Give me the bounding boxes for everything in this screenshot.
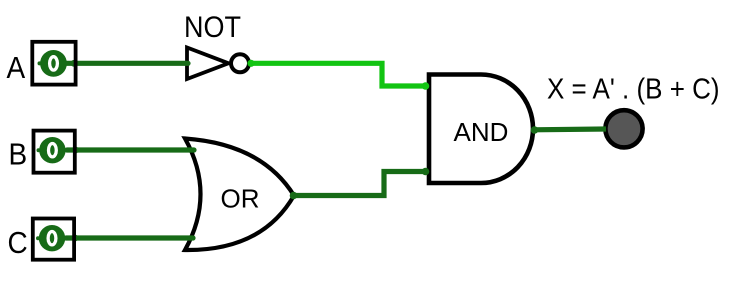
wire AND output to node X <box>532 126 606 132</box>
wire NOT output to AND (bright green, high signal) <box>250 63 426 86</box>
node dot at C box border <box>72 235 79 242</box>
input C value 0 <box>48 232 56 245</box>
node dot at B box border <box>72 147 79 154</box>
input B left nub <box>37 148 41 152</box>
input switch A box <box>32 42 75 85</box>
svg-text:B: B <box>9 137 28 172</box>
wire C: input C to OR <box>66 235 193 240</box>
input A left nub <box>38 61 42 65</box>
input A value 0 <box>50 57 58 70</box>
svg-text:C: C <box>8 226 28 261</box>
svg-text:AND: AND <box>454 117 509 147</box>
output node circle <box>605 110 642 147</box>
input C right nub <box>64 236 68 240</box>
input B value 0 <box>49 144 57 157</box>
input switch C box <box>33 219 74 260</box>
input C state circle <box>39 225 65 251</box>
wire A: input A to NOT <box>66 61 188 66</box>
node dot at AND top input <box>422 82 430 90</box>
node dot at A box border <box>71 60 78 67</box>
node dot at NOT bubble output <box>247 60 254 67</box>
node dot at AND output <box>531 126 539 134</box>
input switch B box <box>34 131 75 173</box>
input B state circle <box>39 137 65 163</box>
input B right nub <box>65 148 69 152</box>
wire B: input B to OR <box>67 147 194 152</box>
node dot at AND bottom input <box>422 168 430 176</box>
input A right nub <box>66 61 70 65</box>
wire OR output to AND <box>293 172 426 196</box>
OR gate U2 <box>185 139 294 251</box>
input A state circle <box>40 50 67 77</box>
svg-text:NOT: NOT <box>184 11 241 44</box>
AND gate U3 <box>429 75 533 184</box>
NOT gate U1 triangle <box>187 48 229 80</box>
svg-text:A: A <box>7 51 26 86</box>
input C left nub <box>36 236 40 240</box>
node dot at OR tip <box>290 192 298 200</box>
svg-text:OR: OR <box>221 184 260 214</box>
svg-text:X = A' . (B + C): X = A' . (B + C) <box>547 72 720 104</box>
NOT gate U1 bubble <box>231 54 249 72</box>
